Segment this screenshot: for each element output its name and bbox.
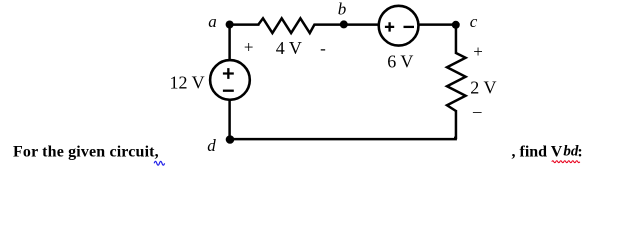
wire d to VS1 [228, 101, 231, 140]
svg-text:a: a [208, 12, 217, 31]
resistor R1 [258, 18, 314, 33]
voltage source VS1 circle [210, 60, 250, 100]
svg-text:–: – [472, 102, 482, 121]
node a [226, 21, 234, 29]
node c [452, 21, 460, 29]
svg-text:12 V: 12 V [170, 72, 205, 92]
svg-text:-: - [320, 39, 326, 58]
wire R2 to bottom corner [454, 110, 456, 138]
svg-text:, find Vbd:: , find Vbd: [512, 143, 583, 160]
wire b to VS2 [344, 23, 379, 26]
svg-text:+: + [473, 42, 483, 61]
svg-text:d: d [207, 136, 216, 155]
wire R1 to b [314, 23, 345, 26]
wire bottom d to corner [230, 138, 457, 141]
wire VS1 to a [228, 25, 231, 60]
resistor R2 [447, 53, 466, 111]
svg-text:b: b [338, 0, 347, 18]
svg-text:+: + [244, 38, 254, 57]
wire a to R1 [230, 23, 260, 26]
wire c to R2 [455, 25, 458, 54]
svg-text:c: c [470, 12, 478, 31]
svg-text:2 V: 2 V [470, 77, 496, 97]
wire VS2 to c [419, 23, 457, 26]
node b [340, 20, 348, 28]
VS1 minus sign [223, 90, 234, 92]
VS2 minus sign [404, 26, 415, 28]
VS1 plus sign [223, 68, 234, 79]
svg-text:For the given circuit,: For the given circuit, [13, 144, 159, 161]
node d [226, 135, 235, 144]
svg-text:6 V: 6 V [387, 51, 413, 71]
svg-text:4 V: 4 V [276, 38, 302, 58]
spelling squiggle red under Vbd [552, 161, 580, 163]
voltage source VS2 circle [379, 6, 419, 46]
grammar squiggle blue under comma [154, 161, 164, 165]
VS2 plus sign [385, 22, 394, 31]
